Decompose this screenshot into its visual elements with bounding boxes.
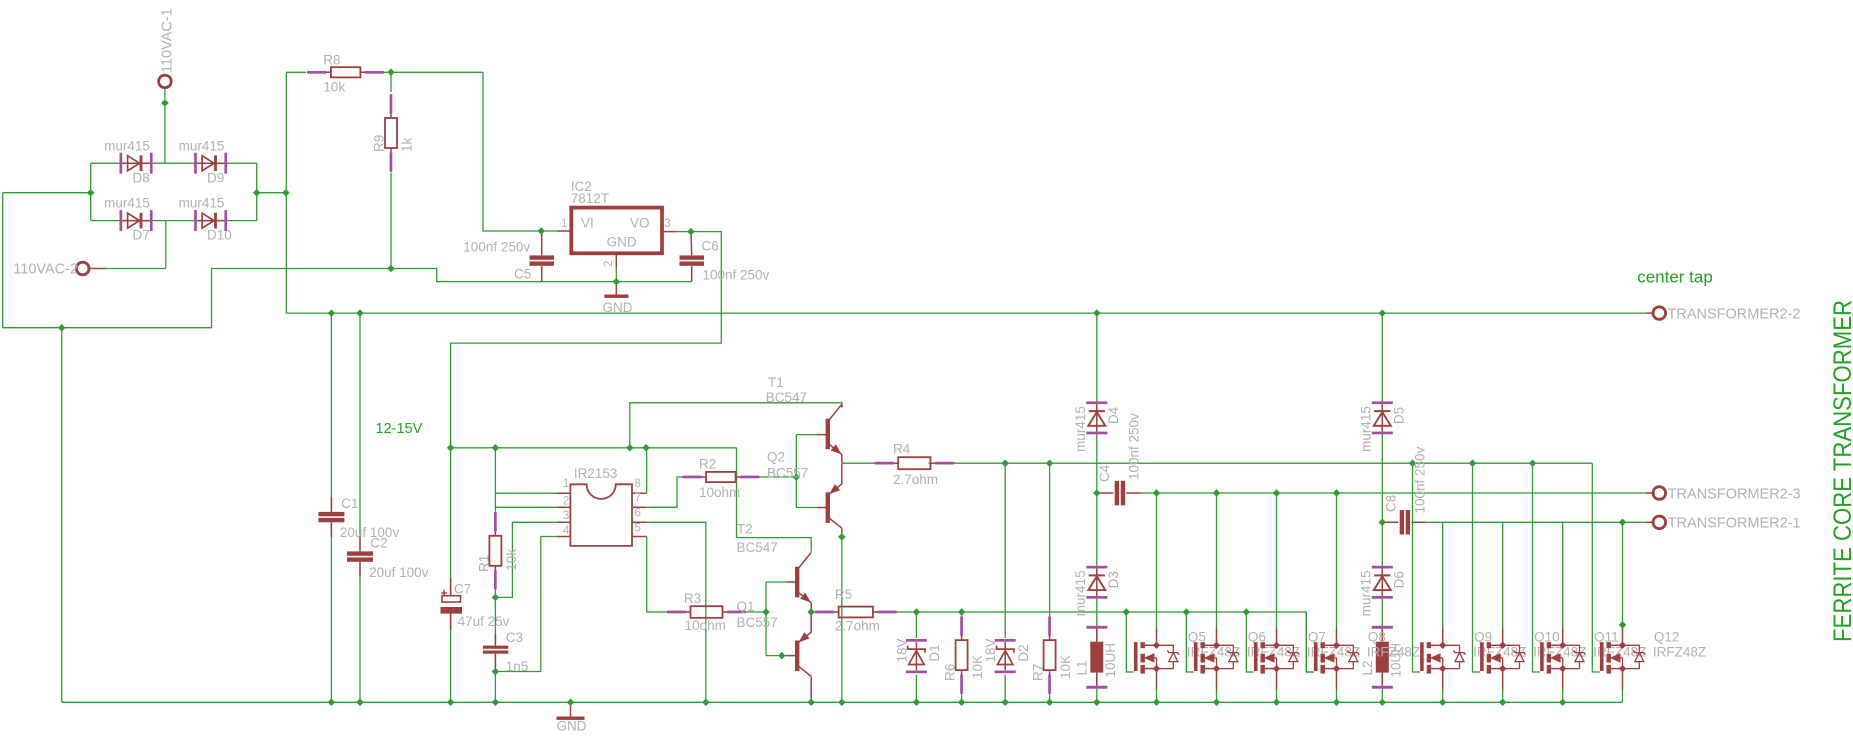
svg-text:R2: R2	[699, 456, 716, 471]
svg-text:20uf 100v: 20uf 100v	[369, 565, 429, 580]
svg-text:VO: VO	[630, 216, 650, 231]
svg-text:18V: 18V	[983, 638, 998, 662]
svg-text:6: 6	[635, 508, 641, 520]
svg-text:BC557: BC557	[767, 466, 808, 481]
svg-text:Q2: Q2	[767, 449, 785, 464]
svg-text:R6: R6	[943, 664, 958, 681]
svg-text:Q12: Q12	[1654, 630, 1680, 645]
svg-text:GND: GND	[607, 235, 637, 250]
svg-text:10k: 10k	[504, 549, 519, 571]
svg-text:C5: C5	[514, 267, 531, 282]
svg-text:C7: C7	[454, 582, 471, 597]
svg-text:mur415: mur415	[104, 196, 150, 211]
svg-text:TRANSFORMER2-3: TRANSFORMER2-3	[1668, 487, 1801, 503]
svg-text:R1: R1	[476, 555, 491, 572]
svg-text:3: 3	[563, 510, 569, 522]
svg-text:D10: D10	[207, 228, 232, 243]
svg-text:100nf 250v: 100nf 250v	[463, 240, 530, 255]
svg-text:R3: R3	[684, 591, 701, 606]
svg-text:2: 2	[563, 495, 569, 507]
svg-text:C4: C4	[1097, 464, 1112, 482]
svg-text:IRFZ48Z: IRFZ48Z	[1653, 645, 1706, 660]
svg-text:R8: R8	[323, 53, 340, 68]
svg-text:C2: C2	[370, 536, 387, 551]
svg-text:T2: T2	[737, 522, 753, 537]
svg-text:TRANSFORMER2-2: TRANSFORMER2-2	[1668, 307, 1801, 323]
svg-text:mur415: mur415	[179, 138, 225, 153]
svg-text:100nf 250v: 100nf 250v	[1413, 446, 1428, 513]
svg-text:T1: T1	[768, 375, 784, 390]
svg-text:18V: 18V	[894, 638, 909, 662]
svg-text:D6: D6	[1391, 571, 1406, 588]
svg-text:mur415: mur415	[1073, 406, 1088, 452]
svg-text:TRANSFORMER2-1: TRANSFORMER2-1	[1668, 516, 1801, 532]
svg-text:D4: D4	[1106, 406, 1121, 424]
svg-text:100nf 250v: 100nf 250v	[703, 268, 770, 283]
svg-text:D3: D3	[1106, 571, 1121, 588]
svg-text:7812T: 7812T	[571, 191, 609, 206]
svg-text:5: 5	[635, 523, 641, 535]
svg-text:4: 4	[563, 525, 570, 537]
svg-text:C8: C8	[1383, 495, 1398, 512]
svg-text:R9: R9	[372, 135, 387, 152]
svg-text:IR2153: IR2153	[574, 466, 618, 481]
svg-text:D1: D1	[927, 644, 942, 661]
svg-text:1: 1	[563, 478, 569, 490]
svg-text:L1: L1	[1075, 660, 1090, 675]
svg-text:R7: R7	[1031, 664, 1046, 681]
svg-text:47uf 25v: 47uf 25v	[458, 614, 510, 629]
svg-text:110VAC-2: 110VAC-2	[13, 262, 78, 278]
svg-text:2: 2	[603, 261, 615, 267]
svg-text:C1: C1	[341, 496, 358, 511]
svg-text:10ohm: 10ohm	[699, 485, 740, 500]
svg-text:3: 3	[664, 218, 670, 230]
svg-text:D5: D5	[1391, 407, 1406, 424]
svg-text:R4: R4	[893, 442, 911, 457]
svg-text:D9: D9	[207, 170, 224, 185]
svg-text:D2: D2	[1016, 644, 1031, 661]
svg-text:C3: C3	[506, 630, 523, 645]
svg-text:mur415: mur415	[1359, 406, 1374, 452]
svg-text:C6: C6	[702, 239, 719, 254]
svg-text:Q8: Q8	[1368, 630, 1386, 645]
svg-text:mur415: mur415	[179, 196, 225, 211]
svg-text:BC547: BC547	[766, 390, 807, 405]
svg-text:Q11: Q11	[1594, 630, 1619, 645]
svg-text:8: 8	[635, 478, 641, 490]
svg-text:1k: 1k	[400, 137, 415, 152]
svg-text:1n5: 1n5	[506, 659, 529, 674]
svg-text:2.7ohm: 2.7ohm	[835, 619, 880, 634]
svg-text:BC547: BC547	[737, 540, 778, 555]
svg-text:12-15V: 12-15V	[376, 421, 423, 437]
svg-text:D7: D7	[133, 228, 150, 243]
svg-text:mur415: mur415	[104, 138, 150, 153]
svg-text:2.7ohm: 2.7ohm	[893, 472, 938, 487]
svg-text:10k: 10k	[323, 80, 345, 95]
svg-text:GND: GND	[603, 300, 633, 315]
svg-text:10UH: 10UH	[1103, 643, 1118, 678]
svg-text:FERRITE CORE TRANSFORMER: FERRITE CORE TRANSFORMER	[1829, 300, 1853, 642]
svg-text:7: 7	[635, 493, 641, 505]
svg-text:mur415: mur415	[1359, 570, 1374, 616]
svg-text:mur415: mur415	[1073, 570, 1088, 616]
svg-text:10K: 10K	[970, 655, 985, 679]
svg-text:BC557: BC557	[737, 615, 778, 630]
svg-text:Q1: Q1	[737, 599, 755, 614]
svg-text:100nf 250v: 100nf 250v	[1127, 413, 1142, 480]
svg-text:center tap: center tap	[1637, 268, 1713, 287]
svg-text:R5: R5	[835, 587, 852, 602]
svg-text:1: 1	[561, 218, 567, 230]
svg-text:10ohm: 10ohm	[685, 618, 726, 633]
svg-text:110VAC-1: 110VAC-1	[160, 8, 176, 73]
svg-text:10K: 10K	[1058, 655, 1073, 679]
svg-text:D8: D8	[133, 170, 150, 185]
svg-text:10UH: 10UH	[1389, 643, 1404, 678]
svg-text:GND: GND	[557, 719, 587, 734]
svg-text:L2: L2	[1360, 660, 1375, 675]
svg-text:VI: VI	[581, 216, 594, 231]
